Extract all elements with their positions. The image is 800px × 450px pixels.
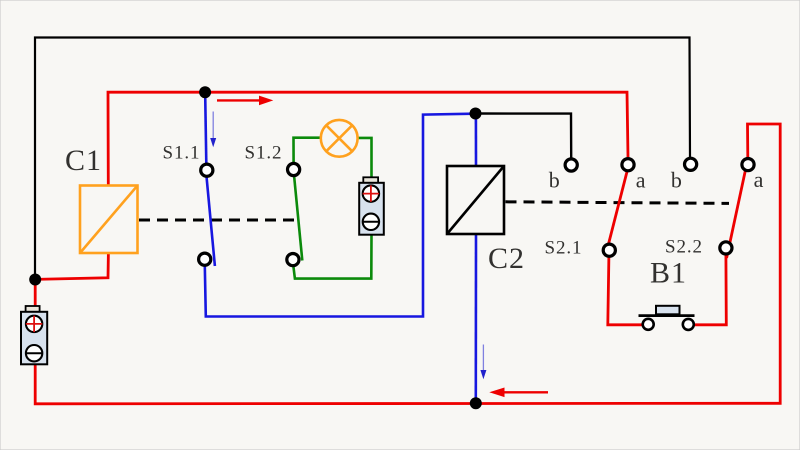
mechanical linkage C1 to S1.1/S1.2 (dashed) bbox=[139, 219, 295, 222]
mechanical linkage C2 to S2.1/S2.2 (dashed) bbox=[506, 202, 730, 204]
current arrow red (bottom, pointing left) bbox=[489, 388, 548, 398]
node: bottom junction C2 / bottom rail bbox=[470, 397, 482, 409]
svg-text:a: a bbox=[636, 167, 646, 192]
switch S1.1 blade (blue) bbox=[207, 177, 215, 267]
current arrow blue small (top, pointing down) bbox=[210, 112, 216, 148]
indicator source symbol (right) bbox=[359, 177, 384, 234]
svg-text:S2.2: S2.2 bbox=[665, 237, 703, 258]
wire: S1.1 bottom to C2 top junction (blue) bbox=[205, 114, 474, 317]
switch S1.2 blade (green) bbox=[294, 176, 302, 261]
svg-text:S2.1: S2.1 bbox=[545, 238, 583, 259]
wire: S1.2 top to lamp (green) bbox=[294, 138, 321, 163]
wire: S2.1 common to pushbutton B1 (red) bbox=[608, 256, 642, 325]
wire: junction to S1.1 top (blue) bbox=[205, 95, 206, 163]
wire: junction down to C2 coil (blue) bbox=[475, 118, 478, 166]
switch S2.1 blade (red) bbox=[605, 171, 627, 257]
wire: lamp to indicator top (green) bbox=[359, 138, 372, 178]
terminal common of S2.2 bbox=[720, 242, 732, 254]
node: junction battery / C1 bbox=[29, 274, 41, 286]
node: junction C2 top bbox=[470, 108, 482, 120]
terminal b of S2.2 bbox=[685, 158, 697, 170]
wire: C2 coil to bottom junction (blue) bbox=[474, 234, 477, 399]
wire: battery plus rail (black, left/top/right) bbox=[35, 38, 690, 280]
current arrow red (top, pointing right) bbox=[217, 96, 273, 106]
switch S1.2 bottom terminal bbox=[287, 254, 299, 266]
wire: pushbutton B1 to S2.2 common (red) bbox=[695, 254, 727, 325]
terminal common of S2.1 bbox=[603, 244, 615, 256]
svg-text:C1: C1 bbox=[65, 144, 102, 177]
switch S1.1 bottom terminal bbox=[199, 253, 211, 265]
terminal a of S2.1 bbox=[622, 159, 634, 171]
wire: red top rail from C1 to S2.1 contact a bbox=[108, 92, 628, 186]
switch S2.2 blade (red) bbox=[727, 170, 746, 258]
relay coil C2 bbox=[447, 166, 504, 234]
switch S1.1 top terminal bbox=[201, 164, 213, 176]
svg-text:b: b bbox=[549, 167, 560, 192]
node: junction top rail / S1.1 bbox=[199, 86, 211, 98]
pushbutton B1 bbox=[639, 306, 695, 330]
lamp E1 bbox=[321, 120, 358, 157]
battery / source symbol (left) bbox=[21, 306, 47, 364]
svg-text:a: a bbox=[754, 167, 764, 192]
svg-text:b: b bbox=[671, 167, 682, 192]
current arrow blue small (bottom, pointing down) bbox=[480, 345, 486, 380]
terminal a of S2.2 bbox=[742, 159, 754, 171]
wire: junction to battery top (red) bbox=[34, 280, 37, 307]
svg-text:S1.1: S1.1 bbox=[163, 143, 201, 164]
wire: C1 bottom to left junction (red) bbox=[35, 253, 108, 280]
svg-text:C2: C2 bbox=[488, 242, 525, 275]
terminal b of S2.1 bbox=[565, 159, 577, 171]
svg-text:S1.2: S1.2 bbox=[245, 143, 283, 164]
wire: C2 junction to S2.1 contact b (black) bbox=[476, 114, 572, 158]
wire: battery minus to bottom rail and right rail to S2.2 contact a (red) bbox=[35, 124, 780, 404]
svg-text:B1: B1 bbox=[650, 257, 687, 290]
wire: indicator bottom back to S1.2 bottom (green) bbox=[293, 235, 371, 279]
switch S1.2 top terminal bbox=[288, 163, 300, 175]
relay coil C1 bbox=[80, 186, 138, 254]
